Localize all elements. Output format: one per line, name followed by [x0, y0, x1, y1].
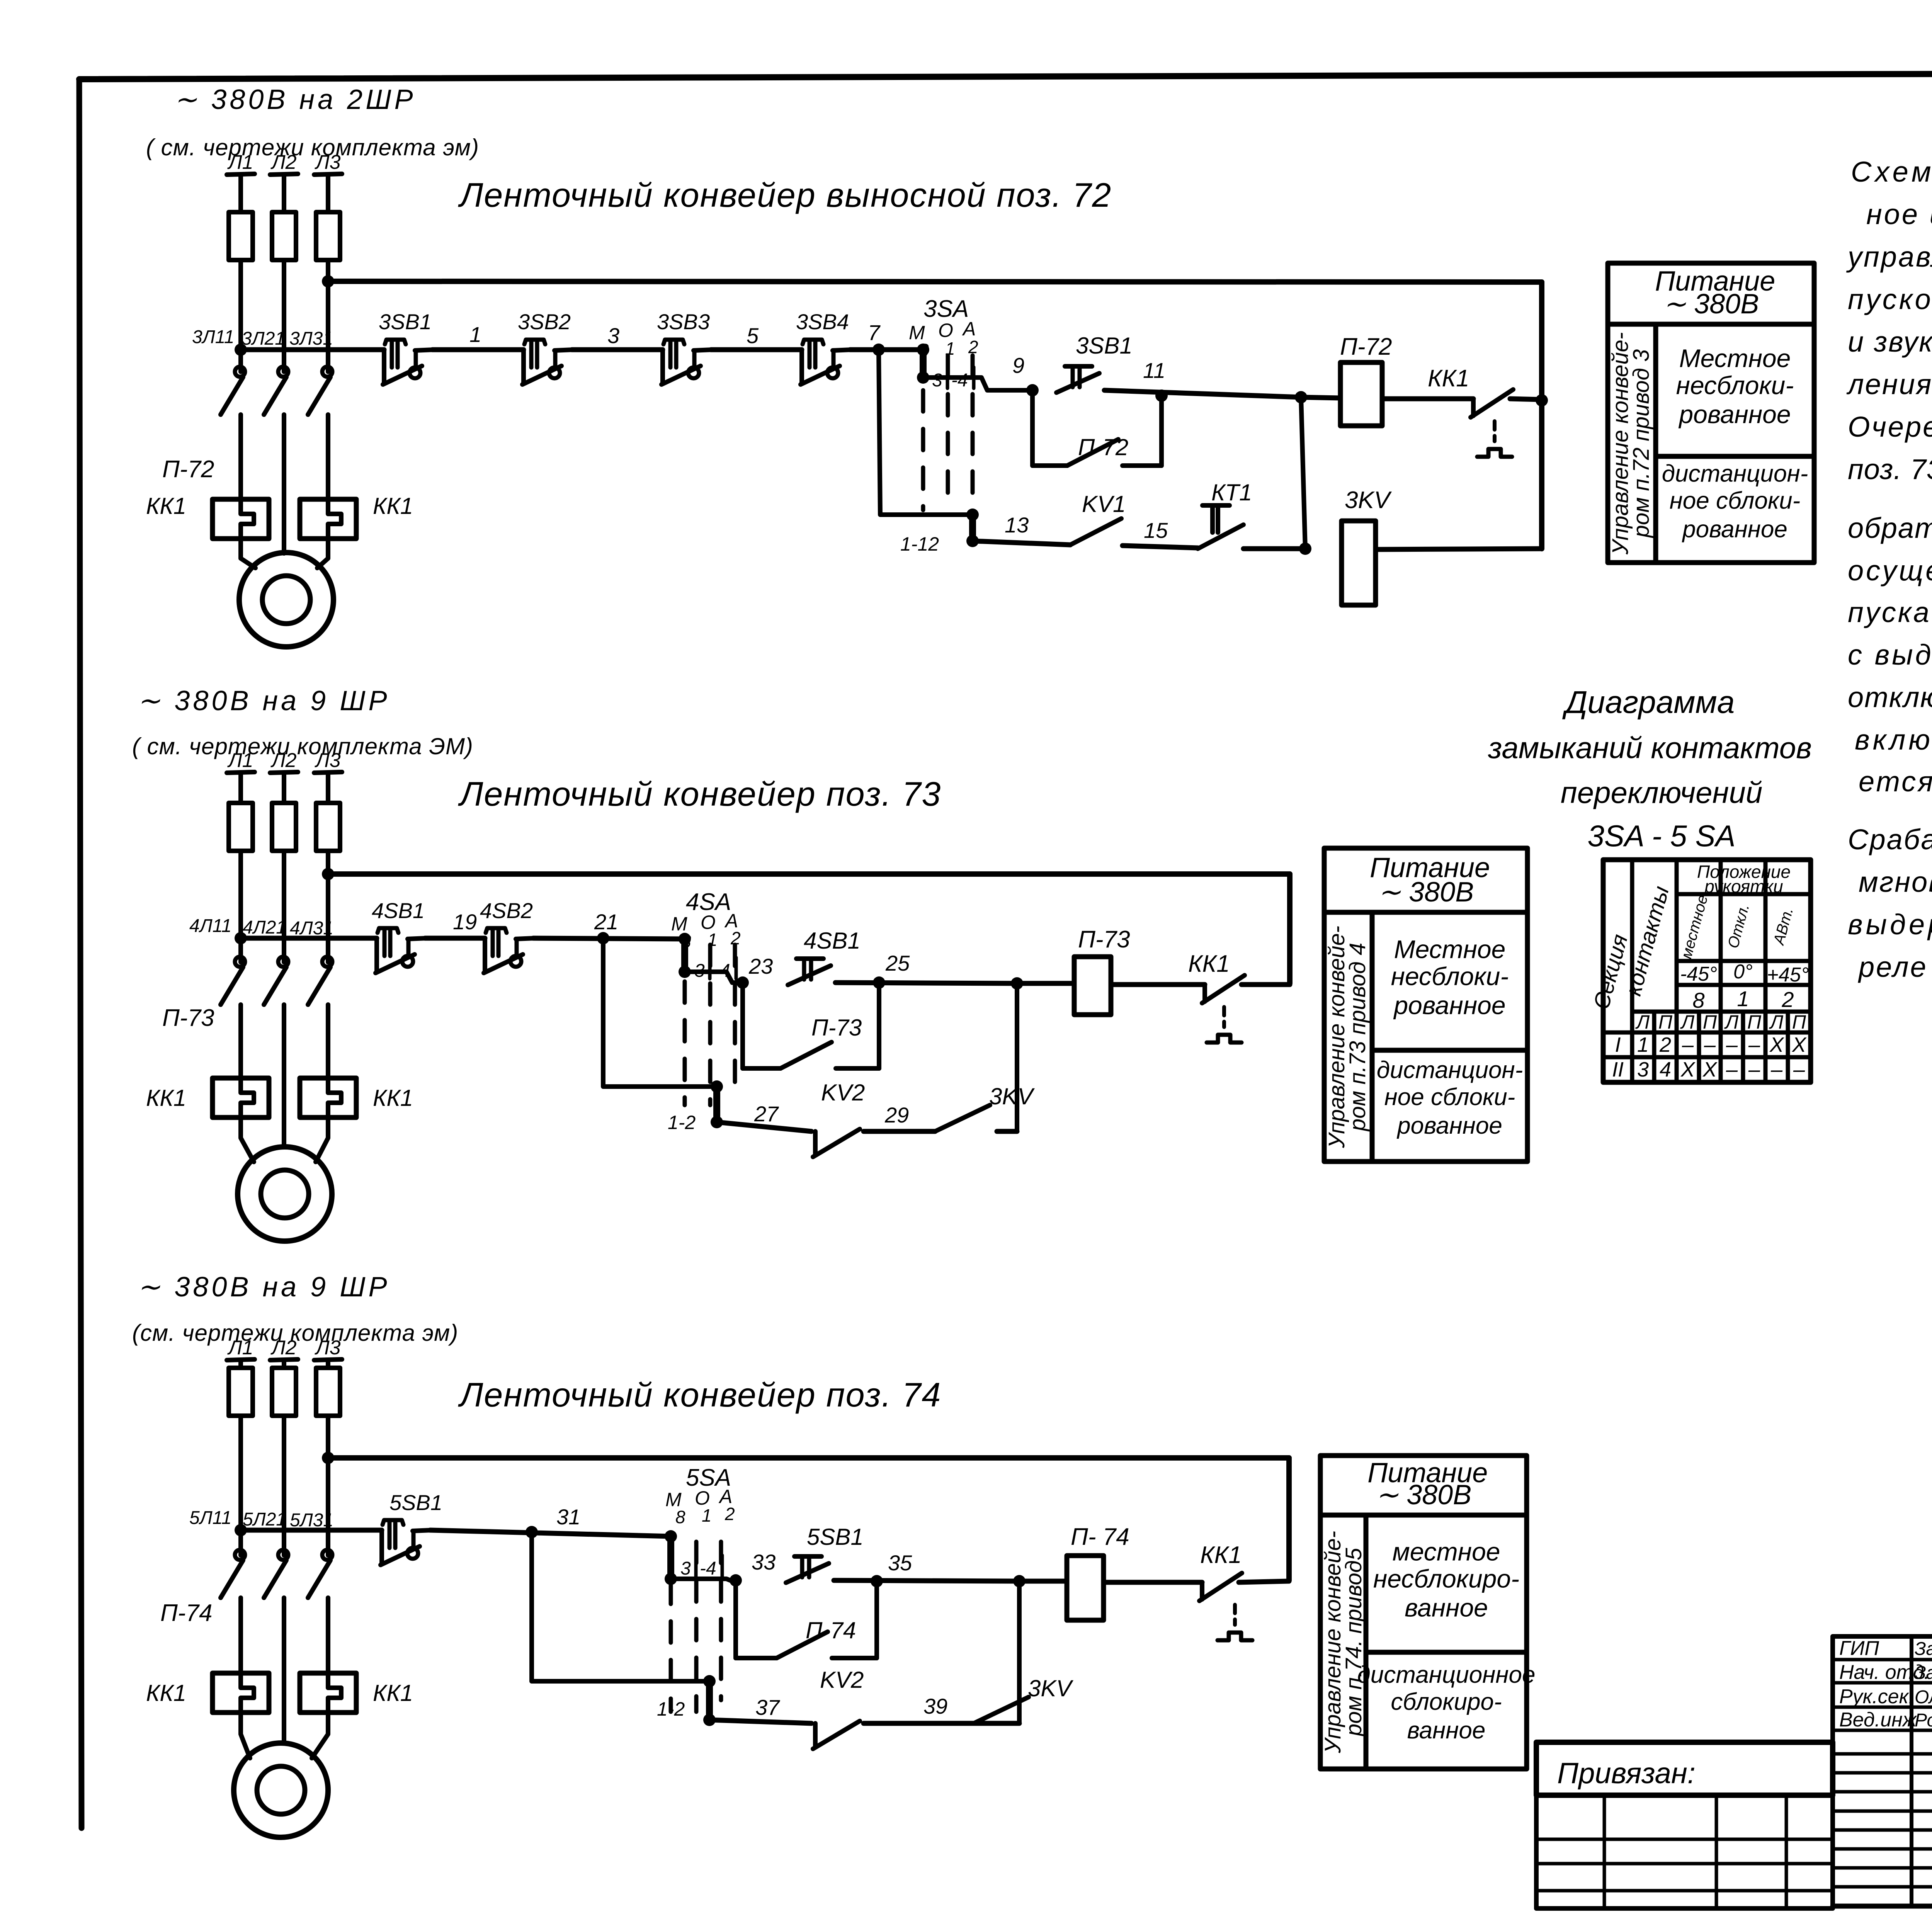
wire phase L2 — [282, 260, 286, 372]
svg-text:ром п.73 привод 4: ром п.73 привод 4 — [1345, 943, 1370, 1132]
wire parallel branch down left — [1030, 390, 1035, 466]
wire coil to KK1 c3 — [1104, 1580, 1202, 1585]
wire to junction — [1243, 546, 1305, 551]
wire phase L3 lower c2 — [326, 1005, 330, 1078]
svg-text:0°: 0° — [1733, 961, 1753, 983]
wire node31 down to 1-2 c3 — [532, 1532, 709, 1681]
wire 3SA to node 9 — [923, 378, 1032, 390]
junction node 31 — [526, 1526, 538, 1538]
svg-text:Л2: Л2 — [270, 151, 297, 173]
pushbutton 3SB4 (NC) — [801, 340, 851, 384]
svg-text:–: – — [1793, 1058, 1805, 1081]
wire phase L1 c3 — [238, 1416, 243, 1555]
contact П-74 (NO) — [777, 1632, 828, 1658]
wire parallel branch down left c3 — [733, 1580, 738, 1658]
junction node 33 — [730, 1574, 742, 1587]
svg-text:3KV: 3KV — [1345, 487, 1392, 514]
power box box1 (п.72) — [1608, 263, 1814, 563]
svg-text:ром п.74. привод5: ром п.74. привод5 — [1341, 1548, 1366, 1737]
svg-text:управление конвейерами поз.: управление конвейерами поз. 72, поз. 73,… — [1846, 241, 1932, 273]
wire phase L3 c3 — [326, 1416, 330, 1555]
node L1 terminal — [227, 174, 255, 175]
svg-text:3SB1: 3SB1 — [379, 310, 432, 334]
wire junction row1-row2 — [1301, 397, 1305, 549]
svg-text:X: X — [1680, 1058, 1696, 1081]
svg-text:Л: Л — [1724, 1011, 1739, 1033]
control wire row c3 — [241, 1528, 382, 1533]
wire 4SA to node 23 — [685, 972, 743, 983]
junction before coil c3 — [1013, 1575, 1026, 1587]
wire node21 down to 1-2 c2 — [603, 938, 717, 1087]
svg-text:Л2: Л2 — [270, 1337, 297, 1359]
svg-text:реле КVI, которое отключае: реле КVI, которое отключает поз. 72. — [1858, 951, 1932, 983]
svg-text:3: 3 — [680, 1558, 691, 1579]
svg-text:21: 21 — [594, 910, 618, 934]
control wire row c2 — [241, 936, 377, 941]
wire phase L3 lower — [326, 415, 330, 499]
svg-text:-4: -4 — [951, 370, 968, 391]
svg-text:КК1: КК1 — [1200, 1542, 1242, 1568]
wire node 21 — [533, 938, 685, 939]
wire row2 c2 mid — [864, 1129, 935, 1134]
svg-text:Местное: Местное — [1394, 935, 1506, 964]
svg-text:11: 11 — [1143, 358, 1165, 383]
thermal contact KK1 (NC) — [1471, 389, 1542, 417]
svg-text:5Л31: 5Л31 — [290, 1510, 333, 1531]
fuse F1 c3 — [229, 1368, 253, 1416]
wire phase L2 upper — [282, 175, 286, 212]
pushbutton 3SB1 (NC) — [383, 340, 434, 384]
KK1 release c3 — [1218, 1605, 1252, 1640]
svg-text:3Л11: 3Л11 — [192, 327, 234, 347]
wire phase L1 lower — [238, 415, 243, 499]
svg-text:КК1: КК1 — [1428, 365, 1469, 392]
svg-text:3Л31: 3Л31 — [289, 328, 333, 349]
svg-text:Местное: Местное — [1679, 344, 1791, 372]
wire junction row1-row2 c2 — [1015, 983, 1019, 1131]
svg-text:4Л21: 4Л21 — [243, 917, 286, 938]
svg-text:Л3: Л3 — [315, 151, 341, 173]
svg-text:П: П — [1792, 1011, 1806, 1033]
pushbutton 3SB2 (NC) — [522, 340, 573, 384]
svg-text:ления осуществляется переклю: ления осуществляется переключателями 3SA… — [1846, 368, 1932, 400]
wire node 19 — [425, 936, 485, 941]
node L3 terminal c2 — [314, 772, 342, 773]
svg-text:ГИП: ГИП — [1839, 1637, 1879, 1660]
svg-text:КК1: КК1 — [146, 1085, 186, 1111]
svg-text:обратном поряЭке. Пуск сис: обратном поряЭке. Пуск системы конвейеро… — [1848, 512, 1932, 544]
power box box3 (п.74) — [1320, 1456, 1527, 1769]
svg-text:переключений: переключений — [1561, 776, 1762, 810]
wire phase L2 lower — [282, 415, 286, 553]
svg-text:Схемой предусмотрено местное: Схемой предусмотрено местное несблокиров… — [1851, 156, 1932, 188]
wire L3 to motor c2 — [316, 1117, 328, 1162]
switch contact 4SA 3-4 — [679, 933, 691, 978]
svg-text:4SB1: 4SB1 — [804, 928, 861, 954]
wire L1 to motor c3 — [241, 1713, 250, 1758]
wire phase L2 upper c3 — [282, 1360, 286, 1368]
svg-text:П-73: П-73 — [811, 1015, 862, 1041]
svg-text:3SB4: 3SB4 — [796, 310, 849, 334]
svg-text:несблокиро-: несблокиро- — [1373, 1565, 1519, 1593]
svg-text:Л: Л — [1680, 1011, 1695, 1033]
wire phase L3 — [326, 260, 330, 372]
junction row1 right — [1536, 394, 1548, 406]
svg-text:+45°: +45° — [1767, 964, 1809, 986]
wire phase L2 upper c2 — [282, 773, 286, 803]
wire parallel branch bottom — [1032, 463, 1067, 468]
wire row2 c3 mid — [864, 1721, 974, 1726]
svg-text:KV2: KV2 — [820, 1667, 864, 1693]
thermal contact KK1 c2 (NC) — [1202, 975, 1290, 1003]
svg-text:рукоятки: рукоятки — [1704, 876, 1783, 896]
svg-text:Л: Л — [1635, 1011, 1650, 1033]
svg-text:KV1: KV1 — [1082, 491, 1126, 517]
node L1 terminal c3 — [227, 1359, 255, 1360]
switch 3SA dashed column O — [946, 355, 950, 510]
svg-text:отключается сигнализация и: отключается сигнализация и контактами 3 … — [1848, 681, 1932, 713]
svg-text:∼ 380В на 9 ШР: ∼ 380В на 9 ШР — [137, 1272, 390, 1303]
junction on L3 to control bus c2 — [322, 868, 334, 880]
svg-text:мгновенно отключаются поз.: мгновенно отключаются поз. 73 и 74 и с — [1859, 866, 1932, 898]
svg-text:15: 15 — [1144, 518, 1168, 543]
svg-text:1: 1 — [1637, 1033, 1649, 1056]
svg-text:3SB2: 3SB2 — [518, 310, 571, 334]
wire row2 c2 start — [717, 1122, 811, 1131]
KK1 manual release symbol — [1477, 421, 1512, 457]
wire coil to KK1 c2 — [1111, 982, 1205, 987]
svg-text:2: 2 — [1781, 987, 1794, 1012]
svg-text:П-72: П-72 — [1078, 434, 1128, 460]
svg-text:3KV: 3KV — [989, 1083, 1035, 1109]
wire row2 c3 start — [709, 1720, 811, 1723]
svg-text:рованное: рованное — [1396, 1112, 1502, 1139]
svg-text:дистанционное: дистанционное — [1357, 1662, 1536, 1688]
svg-text:9: 9 — [1012, 353, 1024, 378]
svg-text:ное сблоки-: ное сблоки- — [1384, 1084, 1515, 1111]
svg-text:–: – — [1704, 1033, 1716, 1056]
svg-text:35: 35 — [888, 1551, 912, 1575]
svg-text:выдержкой времени размыкаетс: выдержкой времени размыкается цепь пуско… — [1848, 908, 1932, 940]
svg-text:рованное: рованное — [1393, 991, 1505, 1020]
svg-text:–: – — [1748, 1033, 1760, 1056]
relay coil П- 74 — [1067, 1556, 1104, 1620]
svg-text:I: I — [1615, 1033, 1621, 1056]
svg-text:Ленточный конвейер поз. 73: Ленточный конвейер поз. 73 — [458, 775, 941, 813]
wire phase L1 c2 — [238, 851, 243, 962]
wire parallel branch bottom c2 — [743, 1066, 781, 1071]
svg-text:4SB2: 4SB2 — [480, 898, 533, 923]
wire phase L1 lower c2 — [238, 1005, 243, 1078]
svg-text:ное сблоки-: ное сблоки- — [1670, 488, 1801, 514]
thermal relay heater KK1 heater L1 c3 — [213, 1673, 269, 1713]
svg-text:сблокиро-: сблокиро- — [1391, 1689, 1502, 1715]
svg-text:2: 2 — [1659, 1033, 1671, 1056]
pushbutton 5SB1 (NO) — [786, 1556, 829, 1583]
svg-text:4Л31: 4Л31 — [290, 918, 333, 939]
switch contact 3SA 3-4 — [917, 344, 929, 384]
svg-text:2: 2 — [724, 1504, 735, 1524]
wire phase L3 c2 — [326, 851, 330, 962]
switch 3SA dashed column A — [971, 355, 975, 502]
node L1 terminal c2 — [227, 772, 255, 773]
svg-text:∼ 380В: ∼ 380В — [1376, 1480, 1471, 1510]
junction before coil c2 — [1011, 977, 1023, 990]
wire node 5 — [711, 347, 802, 352]
wire node 3 — [572, 347, 663, 352]
svg-text:П-74: П-74 — [160, 1600, 213, 1626]
contact П-73 (NO) — [781, 1042, 832, 1068]
svg-text:37: 37 — [755, 1695, 780, 1719]
thermal relay heater KK1 heater L3 — [300, 499, 356, 539]
wire right vertical to KK1 — [1539, 282, 1544, 549]
fuse F3 c3 — [316, 1368, 340, 1416]
contact КТ1 (time relay) — [1198, 505, 1243, 549]
svg-text:П-73: П-73 — [162, 1005, 214, 1031]
svg-text:КК1: КК1 — [1188, 951, 1230, 977]
pushbutton 3SB1 (NO) — [1056, 366, 1099, 393]
svg-text:∼ 380В: ∼ 380В — [1378, 877, 1474, 908]
wire phase L2 lower c3 — [282, 1598, 286, 1743]
junction on L3 to control bus — [322, 275, 334, 287]
contacts table frame — [1603, 860, 1811, 1082]
svg-text:П: П — [1747, 1011, 1762, 1033]
svg-text:П-73: П-73 — [1078, 926, 1130, 953]
wire phase L1 — [238, 260, 243, 372]
switch 5SA dashed column O — [694, 1542, 699, 1712]
motor M M72 — [239, 553, 333, 647]
control bus 380V circuit 2 — [328, 871, 1290, 877]
pushbutton 3SB3 (NC) — [662, 340, 712, 384]
svg-text:Л3: Л3 — [315, 749, 341, 772]
svg-text:X: X — [1791, 1033, 1807, 1056]
svg-text:-4: -4 — [700, 1558, 716, 1579]
svg-text:Ленточный конвейер выносной: Ленточный конвейер выносной поз. 72 — [458, 176, 1112, 214]
contact KV2 (NC) — [813, 1129, 860, 1157]
svg-text:дистанцион-: дистанцион- — [1377, 1057, 1523, 1083]
svg-text:8: 8 — [1692, 988, 1704, 1012]
svg-text:4SB1: 4SB1 — [372, 898, 425, 923]
svg-text:дистанцион-: дистанцион- — [1662, 461, 1808, 487]
wire 3KV coil to right vertical — [1376, 549, 1542, 549]
svg-text:Олейник: Олейник — [1915, 1687, 1932, 1708]
svg-text:П: П — [1703, 1011, 1717, 1033]
junction node 7 — [872, 344, 885, 356]
wire 5SA to node 33 — [671, 1579, 736, 1580]
wire row2 to vertical c2 — [997, 1129, 1017, 1134]
svg-text:3: 3 — [1637, 1058, 1649, 1081]
svg-text:несблоки-: несблоки- — [1676, 371, 1794, 400]
wire L1 to motor — [241, 539, 255, 568]
node L2 terminal c3 — [270, 1359, 298, 1360]
wire node 1 — [432, 347, 524, 352]
svg-text:3SB3: 3SB3 — [657, 310, 710, 334]
wire node7 down to 1-12 — [879, 350, 973, 515]
svg-text:с выдержкой времени включае: с выдержкой времени включается конвейер … — [1848, 639, 1932, 671]
svg-text:Л: Л — [1769, 1011, 1784, 1033]
svg-text:KV2: KV2 — [821, 1080, 865, 1105]
fuse F2 c2 — [272, 803, 296, 851]
control bus 380V circuit 3 — [328, 1455, 1289, 1461]
KK1 release c2 — [1207, 1007, 1242, 1043]
switch 3SA dashed column M — [921, 390, 925, 510]
svg-text:5SB1: 5SB1 — [807, 1524, 864, 1550]
switch 4SA dashed column O — [708, 945, 713, 1105]
svg-text:КК1: КК1 — [373, 493, 413, 519]
svg-text:3: 3 — [932, 370, 942, 391]
svg-text:3: 3 — [607, 323, 619, 348]
wire L3 to motor c3 — [312, 1713, 328, 1758]
svg-text:несблоки-: несблоки- — [1391, 962, 1509, 991]
svg-text:1: 1 — [702, 1505, 712, 1526]
junction node 23 — [736, 976, 749, 989]
thermal relay heater KK1 heater L1 c2 — [213, 1078, 269, 1117]
motor M M74 — [234, 1743, 328, 1837]
svg-text:П-72: П-72 — [162, 456, 214, 483]
wire phase L2 c2 — [282, 851, 286, 962]
svg-text:П: П — [1658, 1011, 1673, 1033]
drawing frame left border — [79, 79, 82, 1828]
wire phase L1 upper — [238, 175, 243, 212]
wire parallel branch bottom right c2 — [836, 1066, 879, 1071]
svg-text:Рук.сек.: Рук.сек. — [1839, 1685, 1914, 1708]
wire node 25 — [835, 983, 1017, 983]
svg-text:Л1: Л1 — [227, 151, 253, 173]
svg-text:Привязан:: Привязан: — [1557, 1757, 1696, 1790]
svg-text:КК1: КК1 — [146, 1680, 186, 1706]
wire parallel branch up right — [1159, 396, 1164, 466]
node L3 terminal — [314, 174, 342, 175]
contact П-72 (NO) — [1067, 439, 1118, 466]
wire phase L2 c3 — [282, 1416, 286, 1555]
node L3 terminal c3 — [314, 1359, 342, 1360]
switch 5SA dashed column M — [669, 1583, 673, 1712]
svg-text:8: 8 — [675, 1507, 685, 1527]
svg-text:7: 7 — [868, 320, 881, 345]
svg-text:КТ1: КТ1 — [1211, 480, 1252, 505]
junction control tap on L1 c2 — [235, 932, 247, 944]
fuse F1 L1 — [229, 212, 253, 260]
thermal contact KK1 c3 (NC) — [1199, 1573, 1289, 1601]
wire node 7 — [850, 347, 923, 352]
wire parallel branch up right c2 — [877, 983, 881, 1068]
svg-text:1: 1 — [469, 322, 481, 347]
svg-text:∼ 380В на 2ШР: ∼ 380В на 2ШР — [174, 84, 416, 115]
svg-text:X: X — [1702, 1058, 1718, 1081]
wire node 35 — [834, 1580, 1019, 1581]
switch contact 5SA 1-2 — [703, 1675, 716, 1726]
svg-text:–: – — [1726, 1033, 1738, 1056]
svg-text:рованное: рованное — [1678, 400, 1791, 429]
svg-text:19: 19 — [453, 910, 477, 934]
junction node 21 — [597, 932, 609, 944]
svg-text:( см. чертежи комплекта ЭМ): ( см. чертежи комплекта ЭМ) — [132, 733, 473, 759]
wire phase L1 upper c2 — [238, 773, 243, 803]
wire phase L1 upper c3 — [238, 1360, 243, 1368]
svg-text:пуска KVI, включает реле в: пуска KVI, включает реле времени сигнали… — [1848, 596, 1932, 628]
switch 5SA dashed column A — [719, 1542, 723, 1700]
svg-text:31: 31 — [556, 1505, 580, 1529]
svg-text:3KV: 3KV — [1028, 1675, 1073, 1701]
relay coil П-72 — [1340, 362, 1382, 426]
svg-text:39: 39 — [923, 1694, 947, 1718]
svg-text:5Л21: 5Л21 — [243, 1509, 286, 1530]
svg-text:X: X — [1769, 1033, 1784, 1056]
switch 4SA dashed column M — [683, 981, 687, 1105]
junction on L3 to control bus c3 — [322, 1452, 334, 1464]
svg-text:Л3: Л3 — [315, 1337, 341, 1359]
drawing frame top border — [79, 72, 1932, 79]
node L2 terminal c2 — [270, 772, 298, 773]
fuse F1 c2 — [229, 803, 253, 851]
power box box2 (п.73) — [1324, 848, 1527, 1162]
wire to П-72 coil — [1301, 397, 1340, 398]
junction node 35 — [871, 1575, 883, 1587]
svg-text:5Л11: 5Л11 — [189, 1508, 231, 1528]
svg-text:КК1: КК1 — [373, 1085, 413, 1111]
wire parallel branch bottom right — [1122, 463, 1162, 468]
wire row2 start — [973, 541, 1070, 545]
svg-text:ется система из поста 3,S: ется система из поста 3,SВ. — [1859, 765, 1932, 798]
svg-text:1: 1 — [1737, 986, 1749, 1011]
wire junction row1-row2 c3 — [1017, 1581, 1022, 1723]
svg-text:∼ 380В: ∼ 380В — [1663, 289, 1759, 320]
title block main frame — [1833, 1639, 1932, 1906]
wire parallel branch bottom c3 — [736, 1656, 777, 1660]
svg-text:Ленточный конвейер поз. 74: Ленточный конвейер поз. 74 — [458, 1376, 941, 1414]
wire phase L1 lower c3 — [238, 1598, 243, 1673]
fuse F2 c3 — [272, 1368, 296, 1416]
wire node 11 — [1104, 390, 1301, 397]
junction row2 — [1299, 543, 1311, 555]
wire phase L3 upper — [326, 175, 330, 212]
junction control tap on L1 — [235, 344, 247, 356]
relay coil 3KV — [1342, 521, 1376, 605]
wire to П-73 coil — [1017, 981, 1074, 986]
svg-text:ванное: ванное — [1407, 1717, 1486, 1744]
wire right vertical c2 — [1287, 874, 1293, 983]
wire to П-74 coil — [1019, 1579, 1067, 1584]
svg-text:1-12: 1-12 — [900, 533, 939, 555]
svg-text:23: 23 — [748, 954, 773, 978]
relay coil П-73 — [1074, 957, 1111, 1015]
node L2 terminal — [270, 174, 298, 175]
wire parallel branch down left c2 — [740, 983, 745, 1068]
svg-text:3SA - 5 SA: 3SA - 5 SA — [1588, 819, 1736, 853]
svg-text:и звуковая - снаружи цеха. Вы: и звуковая - снаружи цеха. Выбор режима … — [1848, 326, 1932, 358]
wire parallel branch up right c3 — [874, 1581, 879, 1658]
wire row2 mid — [1122, 546, 1198, 548]
contact 3KV (NO) — [935, 1105, 990, 1131]
contact KV1 (NO) — [1070, 519, 1121, 545]
svg-text:рованное: рованное — [1682, 516, 1787, 543]
svg-text:Диаграмма: Диаграмма — [1562, 685, 1735, 720]
svg-text:поз. 73 и поз. 74 оба вмест: поз. 73 и поз. 74 оба вместе. Отключение… — [1848, 453, 1932, 485]
svg-text:4Л11: 4Л11 — [189, 916, 231, 936]
wire row2 to vertical c3 — [961, 1721, 1019, 1726]
junction node 9 — [1026, 384, 1039, 396]
wire phase L2 lower c2 — [282, 1005, 286, 1146]
svg-text:–: – — [1770, 1058, 1783, 1081]
svg-text:А: А — [962, 318, 976, 340]
svg-text:замыканий контактов: замыканий контактов — [1488, 731, 1812, 765]
svg-text:П- 74: П- 74 — [1071, 1524, 1129, 1550]
junction node 11 — [1155, 389, 1168, 402]
contact KV2 (NC) — [813, 1721, 860, 1749]
fuse F3 c2 — [316, 803, 340, 851]
svg-text:27: 27 — [754, 1102, 779, 1126]
wire L1 to motor c2 — [241, 1117, 254, 1162]
